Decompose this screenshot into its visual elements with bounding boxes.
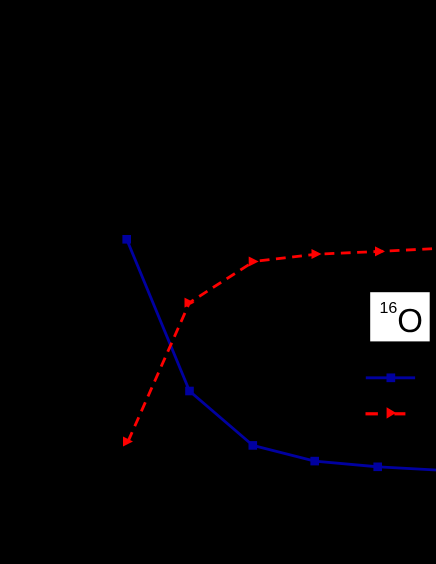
svg-text:16: 16	[380, 300, 398, 317]
svg-text:O: O	[397, 302, 423, 339]
